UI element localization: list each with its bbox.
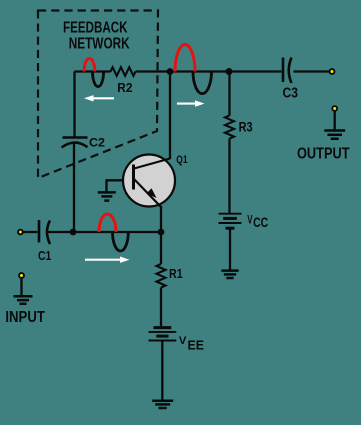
svg-text:C3: C3 — [283, 86, 299, 102]
svg-text:OUTPUT: OUTPUT — [297, 146, 350, 163]
svg-text:Q1: Q1 — [176, 154, 187, 166]
svg-text:CC: CC — [253, 215, 268, 230]
svg-text:V: V — [179, 335, 187, 347]
svg-text:INPUT: INPUT — [5, 309, 45, 326]
svg-text:R3: R3 — [239, 120, 253, 135]
svg-text:EE: EE — [188, 338, 205, 353]
svg-text:NETWORK: NETWORK — [69, 36, 130, 53]
svg-text:C2: C2 — [89, 138, 105, 150]
svg-text:V: V — [247, 213, 252, 227]
svg-text:C1: C1 — [38, 248, 51, 263]
svg-text:R2: R2 — [117, 81, 132, 95]
svg-text:FEEDBACK: FEEDBACK — [63, 20, 128, 37]
svg-text:R1: R1 — [169, 267, 183, 281]
